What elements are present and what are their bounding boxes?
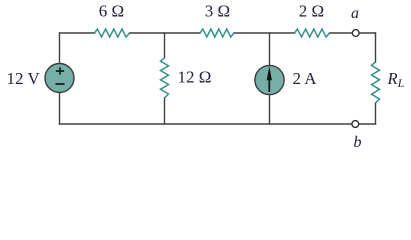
svg-text:2 Ω: 2 Ω	[299, 2, 324, 21]
svg-text:b: b	[354, 134, 362, 151]
svg-text:6 Ω: 6 Ω	[99, 2, 124, 21]
svg-text:3 Ω: 3 Ω	[205, 2, 230, 21]
wire bottom-right segment (terminal b to right corner)	[359, 123, 376, 125]
wire current-source branch upper	[269, 33, 271, 65]
terminal a (open node circle)	[352, 30, 359, 37]
wire right vertical lower (RL to bottom corner)	[375, 103, 377, 124]
wire top segment between 6-ohm and 3-ohm	[130, 32, 201, 34]
voltage source V1 12V (circle)	[45, 64, 74, 93]
resistor 3 ohm (zigzag)	[200, 29, 234, 37]
wire top-left segment (left corner to 6-ohm resistor)	[60, 32, 95, 34]
svg-text:2 A: 2 A	[293, 69, 318, 88]
resistor RL (vertical zigzag)	[372, 62, 380, 103]
wire left vertical upper (corner down to voltage source)	[59, 33, 61, 64]
wire current-source branch lower	[269, 95, 271, 124]
resistor 6 ohm (zigzag)	[95, 29, 130, 37]
wire top segment between 3-ohm and 2-ohm	[234, 32, 295, 34]
resistor 12 ohm (vertical zigzag)	[161, 58, 169, 98]
wire 12-ohm branch lower	[164, 98, 166, 124]
wire top-right segment from terminal a to right corner	[359, 32, 375, 34]
wire right vertical upper (corner down to RL)	[375, 33, 377, 62]
svg-text:a: a	[351, 5, 359, 22]
svg-text:12 Ω: 12 Ω	[178, 68, 212, 87]
svg-text:RL: RL	[387, 69, 405, 90]
wire bottom segment (left corner to terminal b)	[60, 123, 352, 125]
wire top segment from 2-ohm to terminal a	[330, 32, 353, 34]
wire left vertical lower (voltage source to bottom wire)	[59, 93, 61, 125]
terminal b (open node circle)	[352, 121, 359, 128]
svg-text:12 V: 12 V	[7, 69, 41, 88]
current source I1 2A (circle with up arrow)	[255, 65, 284, 94]
resistor 2 ohm (zigzag)	[295, 29, 330, 37]
wire 12-ohm branch upper	[164, 33, 166, 58]
